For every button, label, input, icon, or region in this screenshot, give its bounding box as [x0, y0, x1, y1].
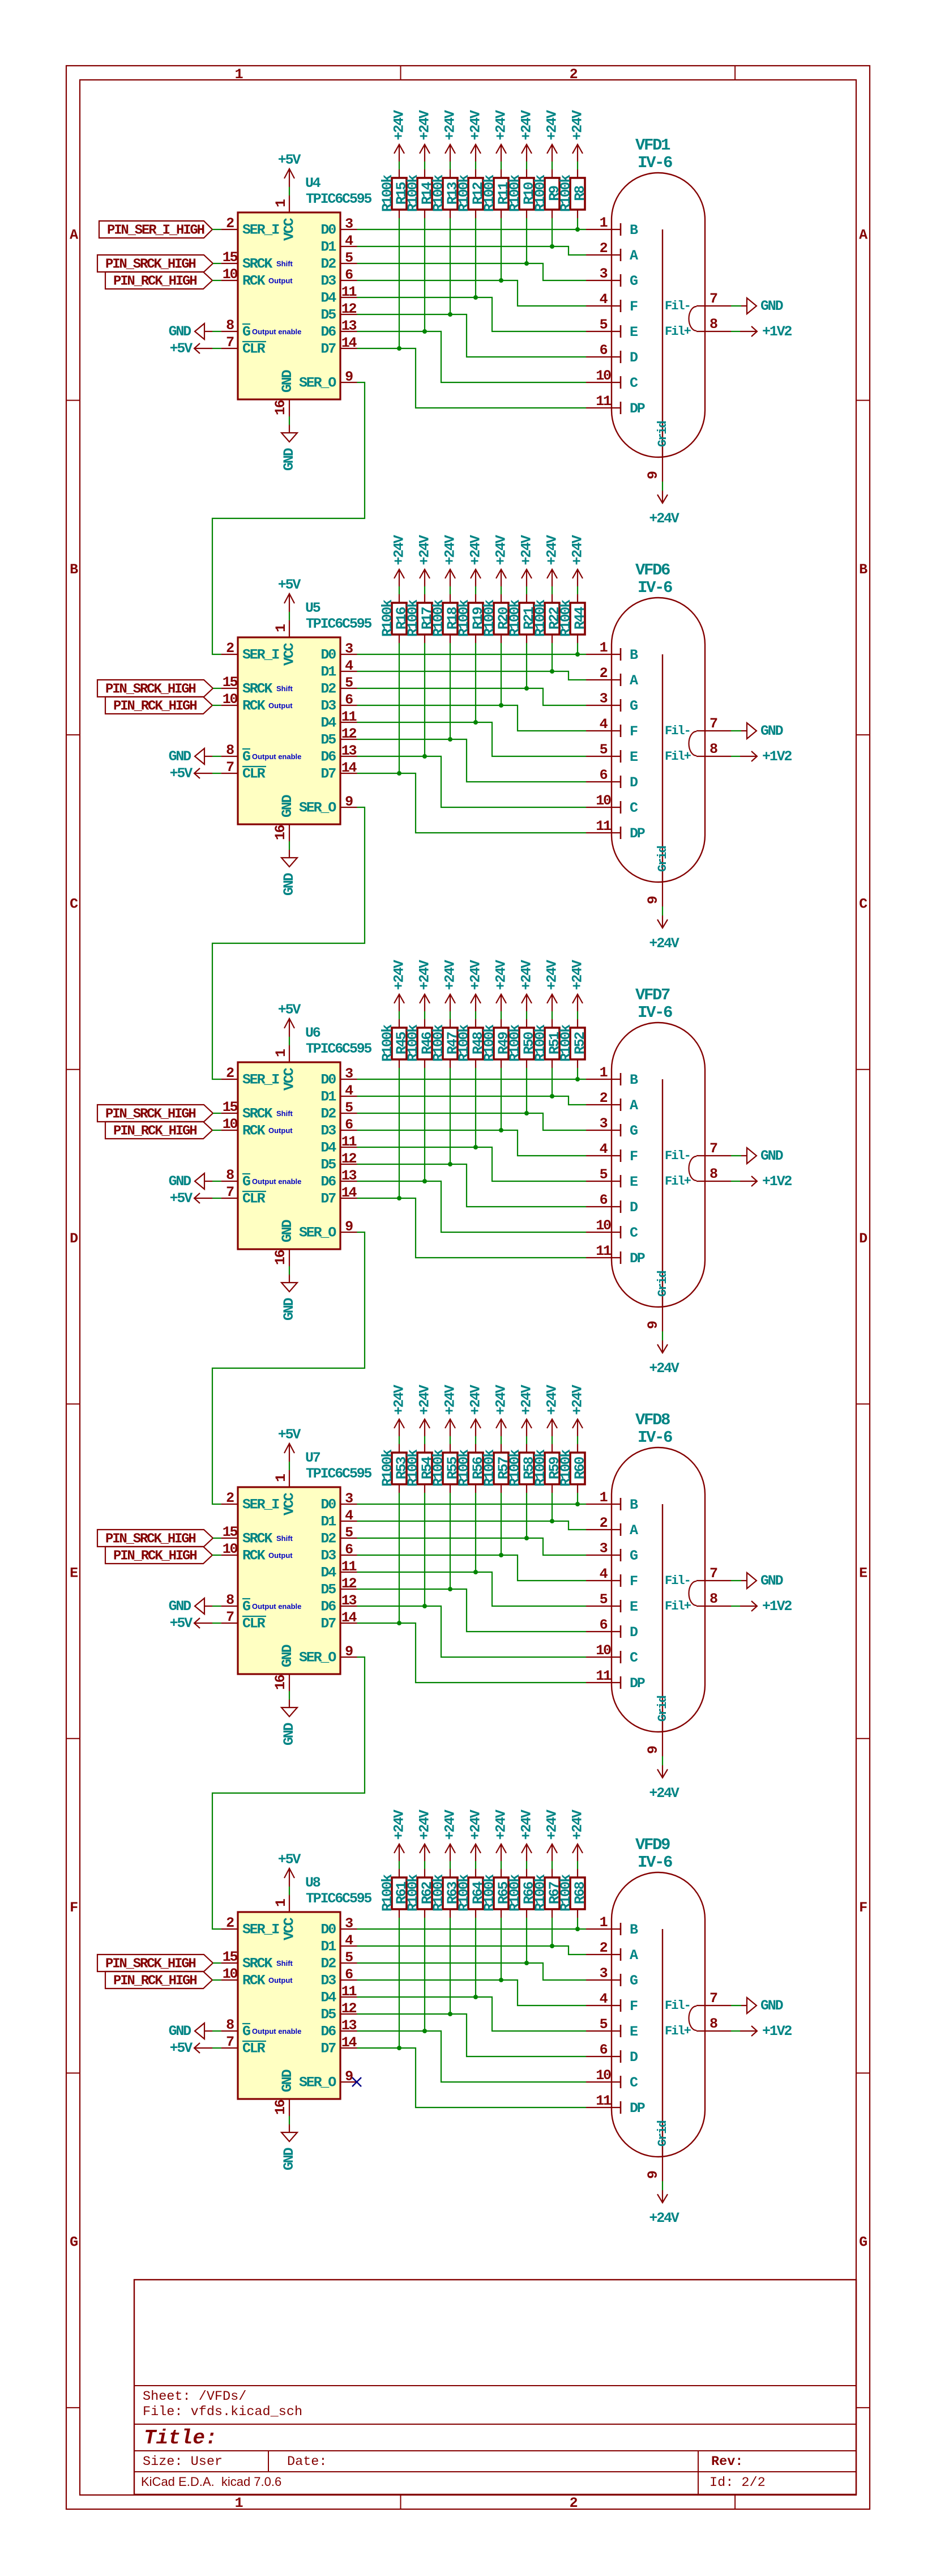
svg-text:SER_I: SER_I: [242, 1072, 279, 1088]
svg-text:A: A: [630, 1947, 638, 1964]
svg-text:9: 9: [345, 794, 353, 810]
svg-text:7: 7: [226, 2034, 234, 2050]
wire U4.D4 to VFD1.E: [357, 297, 587, 331]
junction: [422, 1179, 427, 1183]
resistor R59 100k: [532, 1444, 563, 1493]
wire: [212, 229, 221, 230]
U6 pin 6 D3: [320, 1117, 357, 1139]
svg-text:+24V: +24V: [544, 535, 561, 565]
wire: [424, 586, 425, 594]
wire U5.D5 to VFD6.D: [357, 739, 587, 782]
power GND: [281, 2124, 297, 2170]
VFD7 pin 11 DP: [586, 1243, 645, 1267]
resistor R44 100k: [558, 594, 588, 643]
svg-text:8: 8: [710, 316, 717, 333]
svg-text:VCC: VCC: [281, 218, 298, 241]
shift register U4 TPIC6C595: [221, 175, 372, 416]
wire: [212, 2030, 221, 2032]
junction: [448, 737, 452, 742]
junction: [524, 1961, 529, 1965]
junction: [524, 1536, 529, 1540]
resistor R66 100k: [507, 1869, 537, 1918]
U4 pin 14 D7: [320, 335, 357, 357]
global label PIN_RCK_HIGH: [105, 1972, 212, 1989]
svg-text:F: F: [630, 723, 638, 740]
wire U8.D0 to VFD9.B: [357, 1928, 587, 1930]
svg-text:Output: Output: [268, 1551, 293, 1560]
svg-text:5: 5: [345, 1525, 353, 1541]
svg-text:+24V: +24V: [417, 110, 433, 140]
U4 pin 3 D0: [320, 216, 357, 239]
svg-text:5: 5: [345, 675, 353, 691]
svg-text:3: 3: [600, 1540, 608, 1557]
svg-text:3: 3: [600, 691, 608, 707]
U8 pin 10 RCK: [221, 1966, 293, 1989]
wire U6.D3 to VFD7.F: [357, 1130, 587, 1156]
wire: [662, 906, 663, 916]
svg-text:D3: D3: [320, 273, 336, 289]
wire U5.D3 to VFD6.F: [357, 705, 587, 731]
U5 pin 8 G: [221, 742, 302, 765]
svg-text:RCK: RCK: [242, 698, 266, 714]
svg-text:GND: GND: [760, 723, 784, 739]
wire: [424, 1493, 425, 1606]
svg-text:D7: D7: [320, 1191, 336, 1207]
svg-text:GND: GND: [169, 1598, 192, 1615]
svg-text:CLR: CLR: [242, 766, 266, 782]
svg-text:9: 9: [645, 2171, 661, 2179]
wire: [475, 1861, 476, 1869]
svg-text:+24V: +24V: [649, 510, 679, 527]
wire U7.D2 to VFD8.G: [357, 1538, 587, 1555]
wire U8.D1 to VFD9.A: [357, 1946, 587, 1955]
junction: [448, 2012, 452, 2016]
svg-text:+24V: +24V: [391, 535, 408, 565]
wire U7.D6 to VFD8.C: [357, 1606, 587, 1657]
global label PIN_SER_I_HIGH: [99, 221, 212, 239]
wire: [501, 1493, 502, 1555]
VFD9 grid electrode: [656, 1929, 670, 2157]
power +24V: [570, 110, 586, 161]
junction: [550, 669, 554, 674]
svg-text:7: 7: [226, 1184, 234, 1200]
svg-text:15: 15: [223, 249, 238, 266]
svg-text:SRCK: SRCK: [242, 1106, 272, 1122]
wire U8.D5 to VFD9.D: [357, 2014, 587, 2056]
svg-text:B: B: [630, 1922, 638, 1938]
svg-text:14: 14: [341, 335, 357, 351]
svg-text:2: 2: [226, 215, 234, 232]
U7 pin 16 GND: [272, 1644, 296, 1691]
svg-text:1: 1: [600, 1065, 608, 1081]
wire: [212, 280, 221, 281]
VFD1 pin 9 Grid: [645, 457, 663, 482]
VFD1 grid electrode: [656, 229, 670, 457]
svg-text:2: 2: [600, 1940, 608, 1956]
svg-text:1: 1: [600, 215, 608, 231]
U4 pin 4 D1: [320, 233, 357, 256]
svg-text:+24V: +24V: [493, 1809, 510, 1840]
svg-text:+24V: +24V: [649, 1785, 679, 1802]
wire: [501, 1436, 502, 1444]
VFD7 grid electrode: [656, 1079, 670, 1307]
wire: [399, 643, 400, 773]
svg-text:5: 5: [600, 317, 608, 333]
wire U5.D2 to VFD6.G: [357, 688, 587, 705]
U4 pin 15 SRCK: [221, 249, 293, 272]
power +24V: [468, 1385, 484, 1436]
svg-text:16: 16: [272, 1250, 289, 1265]
svg-text:KiCad E.D.A. kicad 7.0.6: KiCad E.D.A. kicad 7.0.6: [141, 2475, 281, 2489]
power GND: [281, 1700, 297, 1745]
svg-text:GND: GND: [169, 1173, 192, 1190]
svg-text:D0: D0: [320, 1072, 336, 1088]
power GND: [169, 2023, 212, 2039]
wire U4.D0 to VFD1.B: [357, 229, 587, 230]
svg-text:+5V: +5V: [170, 765, 193, 782]
svg-text:B: B: [70, 561, 78, 578]
junction: [575, 1927, 580, 1931]
junction: [550, 1944, 554, 1948]
U7 pin 1 VCC: [273, 1470, 298, 1515]
svg-text:GND: GND: [281, 1297, 297, 1321]
svg-text:SRCK: SRCK: [242, 1531, 272, 1547]
svg-text:1: 1: [235, 2495, 243, 2511]
wire: [213, 1538, 221, 1539]
junction: [524, 261, 529, 266]
wire U7.D0 to VFD8.B: [357, 1504, 587, 1505]
U7 pin 13 D6: [320, 1593, 357, 1615]
VFD6 pin 9 Grid: [645, 882, 663, 906]
resistor R60 100k: [558, 1444, 588, 1493]
svg-text:C: C: [859, 896, 867, 912]
resistor R19 100k: [456, 594, 486, 643]
VFD7 pin 5 E: [586, 1166, 638, 1190]
svg-text:PIN_SRCK_HIGH: PIN_SRCK_HIGH: [105, 1957, 195, 1972]
svg-text:+5V: +5V: [278, 1427, 301, 1443]
svg-text:IV-6: IV-6: [638, 1853, 672, 1872]
U5 pin 6 D3: [320, 692, 357, 714]
svg-text:SRCK: SRCK: [242, 1956, 272, 1972]
wire U7.D1 to VFD8.A: [357, 1521, 587, 1530]
svg-text:Grid: Grid: [656, 846, 670, 872]
U5 pin 16 GND: [272, 794, 296, 841]
svg-text:9: 9: [345, 1219, 353, 1235]
wire U4.D7 to VFD1.DP: [357, 348, 587, 408]
svg-text:Output enable: Output enable: [252, 1177, 301, 1186]
wire: [552, 1861, 553, 1869]
svg-text:15: 15: [223, 674, 238, 691]
svg-text:C: C: [630, 375, 638, 391]
svg-text:10: 10: [596, 368, 611, 384]
VFD9 pin 2 A: [586, 1940, 638, 1964]
junction: [422, 329, 427, 334]
wire: [501, 643, 502, 705]
svg-text:RCK: RCK: [242, 273, 266, 289]
svg-text:D: D: [630, 350, 638, 366]
svg-text:8: 8: [226, 1167, 234, 1183]
svg-text:4: 4: [600, 291, 608, 308]
svg-text:9: 9: [645, 896, 661, 904]
svg-text:+24V: +24V: [544, 960, 561, 990]
U8 pin 4 D1: [320, 1932, 357, 1955]
power GND: [741, 298, 784, 314]
svg-text:4: 4: [600, 716, 608, 733]
VFD1 pin 8 Fil+: [665, 316, 731, 339]
svg-text:+24V: +24V: [442, 960, 459, 990]
svg-text:D2: D2: [320, 1956, 336, 1972]
wire: [424, 161, 425, 169]
svg-text:D4: D4: [320, 1990, 336, 2006]
wire U6.D6 to VFD7.C: [357, 1181, 587, 1232]
svg-text:B: B: [630, 222, 638, 239]
svg-text:5: 5: [600, 742, 608, 758]
U6 pin 7 CLR: [221, 1184, 266, 1207]
svg-text:+5V: +5V: [278, 1851, 301, 1868]
power +24V: [468, 535, 484, 586]
svg-text:SER_O: SER_O: [299, 1650, 336, 1666]
svg-text:+1V2: +1V2: [762, 1598, 792, 1615]
svg-text:7: 7: [710, 1140, 717, 1157]
resistor R56 100k: [456, 1444, 486, 1493]
svg-text:D1: D1: [320, 1939, 336, 1955]
junction: [524, 1111, 529, 1115]
power +5V: [278, 1002, 301, 1037]
svg-text:R8: R8: [572, 186, 588, 201]
svg-text:7: 7: [226, 334, 234, 351]
wire U6.D2 to VFD7.G: [357, 1113, 587, 1130]
wire: [475, 1918, 476, 1997]
VFD6 pin 10 C: [586, 793, 638, 816]
wire: [212, 348, 221, 349]
wire: [450, 161, 451, 169]
svg-text:U4: U4: [305, 175, 321, 191]
svg-text:8: 8: [710, 2016, 717, 2032]
svg-text:10: 10: [223, 1116, 238, 1132]
junction: [524, 686, 529, 691]
svg-text:Grid: Grid: [656, 1271, 670, 1297]
U6 pin 14 D7: [320, 1185, 357, 1207]
U4 pin 2 SER_I: [221, 215, 280, 239]
svg-text:7: 7: [710, 1565, 717, 1582]
svg-text:2: 2: [226, 1065, 234, 1082]
U7 pin 12 D5: [320, 1576, 357, 1598]
svg-text:+24V: +24V: [519, 960, 535, 990]
wire: [213, 1113, 221, 1114]
svg-text:IV-6: IV-6: [638, 1003, 672, 1022]
svg-text:Output: Output: [268, 1126, 293, 1135]
svg-text:Grid: Grid: [656, 421, 670, 447]
wire U7.D5 to VFD8.D: [357, 1589, 587, 1632]
svg-text:3: 3: [345, 641, 353, 657]
svg-text:CLR: CLR: [242, 1191, 266, 1207]
svg-text:A: A: [630, 1097, 638, 1114]
wire: [475, 1011, 476, 1019]
svg-text:IV-6: IV-6: [638, 578, 672, 597]
resistor R67 100k: [532, 1869, 563, 1918]
svg-text:A: A: [70, 227, 78, 243]
power +5V: [170, 1190, 212, 1207]
global label PIN_RCK_HIGH: [105, 697, 212, 714]
svg-text:+24V: +24V: [544, 110, 561, 140]
U4 pin 5 D2: [320, 250, 357, 272]
svg-text:+5V: +5V: [170, 1615, 193, 1632]
svg-text:3: 3: [345, 216, 353, 232]
VFD1 filament: [689, 306, 697, 331]
svg-text:Fil+: Fil+: [665, 325, 691, 339]
wire: [424, 218, 425, 331]
svg-text:Fil+: Fil+: [665, 2024, 691, 2038]
svg-text:11: 11: [596, 2093, 611, 2109]
resistor R21 100k: [507, 594, 537, 643]
wire: [212, 756, 221, 757]
wire U8.D7 to VFD9.DP: [357, 2048, 587, 2107]
resistor R68 100k: [558, 1869, 588, 1918]
wire: [475, 1068, 476, 1147]
svg-text:A: A: [630, 248, 638, 264]
svg-text:TPIC6C595: TPIC6C595: [306, 1466, 371, 1482]
svg-text:D0: D0: [320, 1497, 336, 1513]
svg-text:+24V: +24V: [519, 1809, 535, 1840]
svg-text:PIN_RCK_HIGH: PIN_RCK_HIGH: [113, 274, 196, 289]
U5 pin 2 SER_I: [221, 640, 280, 663]
svg-text:Output: Output: [268, 276, 293, 285]
wire: [577, 586, 578, 594]
U5 pin 12 D5: [320, 726, 357, 748]
svg-text:B: B: [630, 647, 638, 663]
svg-text:+24V: +24V: [570, 1385, 586, 1415]
svg-text:D: D: [630, 1624, 638, 1641]
svg-text:D6: D6: [320, 324, 336, 340]
svg-text:D6: D6: [320, 1174, 336, 1190]
global label PIN_RCK_HIGH: [105, 1122, 212, 1139]
power +24V: [544, 960, 561, 1011]
svg-text:+24V: +24V: [570, 110, 586, 140]
VFD9 pin 5 E: [586, 2016, 638, 2040]
svg-text:6: 6: [345, 1966, 353, 1983]
wire: [526, 1436, 527, 1444]
svg-text:4: 4: [600, 1566, 608, 1582]
svg-text:F: F: [630, 1998, 638, 2015]
svg-text:VCC: VCC: [281, 642, 298, 666]
wire: [552, 161, 553, 169]
svg-text:D1: D1: [320, 1514, 336, 1530]
VFD9 pin 6 D: [586, 2042, 638, 2066]
wire: [212, 331, 221, 332]
wire: [475, 161, 476, 169]
wire: [424, 1011, 425, 1019]
wire U7.D7 to VFD8.DP: [357, 1623, 587, 1683]
U8 pin 14 D7: [320, 2034, 357, 2057]
wire U6.D0 to VFD7.B: [357, 1079, 587, 1080]
wire U7.D3 to VFD8.F: [357, 1555, 587, 1581]
svg-text:1: 1: [273, 1899, 289, 1907]
wire: [399, 1068, 400, 1198]
wire: [577, 1861, 578, 1869]
U8 pin 1 VCC: [273, 1895, 298, 1940]
global label PIN_SRCK_HIGH: [97, 1530, 213, 1547]
VFD7 filament: [689, 1156, 697, 1181]
VFD8 pin 11 DP: [586, 1668, 645, 1692]
U8 pin 11 D4: [320, 1983, 357, 2006]
VFD8 filament: [689, 1581, 697, 1606]
resistor R18 100k: [430, 594, 461, 643]
U6 pin 2 SER_I: [221, 1065, 280, 1088]
svg-text:CLR: CLR: [242, 1616, 266, 1632]
junction: [397, 346, 401, 351]
wire: [450, 1436, 451, 1444]
U8 pin 3 D0: [320, 1915, 357, 1938]
resistor R11 100k: [481, 169, 512, 218]
VFD6 pin 5 E: [586, 742, 638, 765]
svg-text:+24V: +24V: [544, 1809, 561, 1840]
svg-text:16: 16: [272, 400, 289, 415]
svg-text:6: 6: [600, 1617, 608, 1633]
svg-text:U6: U6: [305, 1025, 320, 1041]
VFD1 pin 2 A: [586, 240, 638, 264]
wire: [289, 1037, 290, 1045]
svg-text:1: 1: [235, 66, 243, 83]
svg-text:D2: D2: [320, 681, 336, 697]
VFD7 pin 6 D: [586, 1192, 638, 1216]
svg-text:C: C: [630, 800, 638, 816]
junction: [397, 771, 401, 776]
wire: [577, 1436, 578, 1444]
wire: [212, 1555, 221, 1556]
VFD1 pin 1 B: [586, 215, 638, 239]
svg-text:6: 6: [600, 1192, 608, 1208]
wire: [475, 586, 476, 594]
resistor R17 100k: [405, 594, 435, 643]
resistor R63 100k: [430, 1869, 461, 1918]
svg-text:D0: D0: [320, 1922, 336, 1938]
U4 pin 10 RCK: [221, 266, 293, 289]
wire: [475, 643, 476, 722]
svg-text:8: 8: [226, 2017, 234, 2033]
VFD8 pin 3 G: [586, 1540, 638, 1564]
svg-text:+24V: +24V: [442, 1385, 459, 1415]
junction: [448, 312, 452, 317]
svg-text:R52: R52: [572, 1032, 588, 1055]
svg-text:SER_O: SER_O: [299, 1225, 336, 1241]
resistor R62 100k: [405, 1869, 435, 1918]
U4 pin 6 D3: [320, 267, 357, 289]
svg-text:1: 1: [600, 1489, 608, 1506]
wire: [450, 1918, 451, 2014]
power +24V: [468, 1809, 484, 1861]
VFD8 pin 10 C: [586, 1642, 638, 1666]
U7 pin 8 G: [221, 1592, 302, 1615]
svg-text:10: 10: [223, 1541, 238, 1557]
svg-text:4: 4: [345, 1932, 353, 1949]
svg-text:Rev:: Rev:: [711, 2454, 743, 2469]
U8 pin 16 GND: [272, 2069, 296, 2116]
VFD tube VFD9 IV-6: [586, 1836, 731, 2181]
svg-text:E: E: [630, 324, 638, 340]
wire: [552, 1068, 553, 1096]
VFD9 pin 4 F: [586, 1991, 638, 2015]
svg-text:13: 13: [341, 1593, 357, 1609]
power +5V: [278, 577, 301, 612]
svg-text:TPIC6C595: TPIC6C595: [306, 1041, 371, 1057]
svg-text:C: C: [630, 2075, 638, 2091]
VFD tube VFD6 IV-6: [586, 561, 731, 906]
wire: [731, 331, 740, 332]
svg-text:GND: GND: [760, 1148, 784, 1164]
svg-text:+24V: +24V: [391, 960, 408, 990]
wire: [289, 2116, 290, 2124]
wire: [577, 218, 578, 229]
